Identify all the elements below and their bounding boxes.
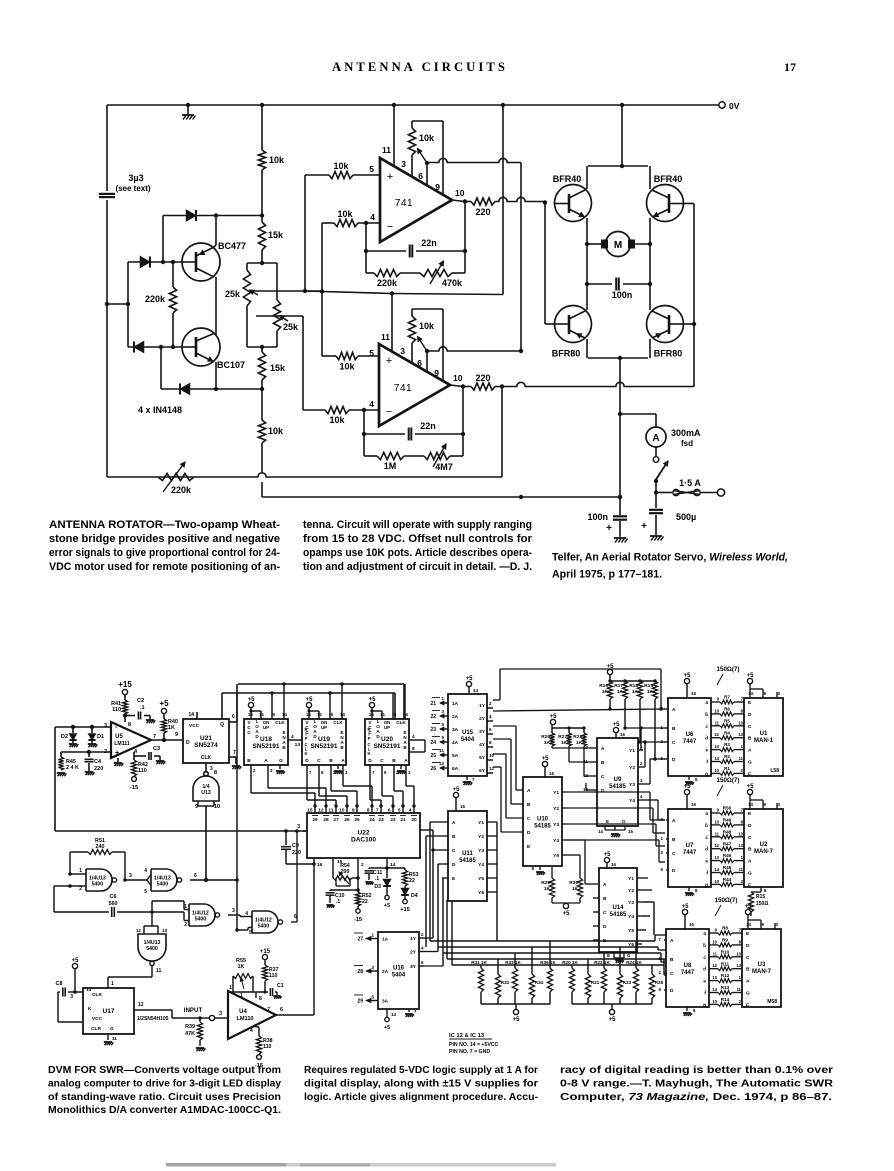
IC U9 xyxy=(597,738,638,826)
svg-text:16: 16 xyxy=(317,862,323,868)
wire U4 output xyxy=(276,1014,314,1016)
svg-text:error signals to give proporti: error signals to give proportional contr… xyxy=(49,547,280,559)
wire h1 to bridge bus xyxy=(427,158,521,162)
wire U21 Q to bus xyxy=(229,721,237,723)
IC U14 xyxy=(599,868,637,952)
svg-text:9: 9 xyxy=(441,735,444,740)
ground under U5 xyxy=(117,758,119,762)
wire left base tie xyxy=(544,203,546,325)
capacitor C9 220 xyxy=(284,829,288,833)
svg-text:B: B xyxy=(601,760,605,766)
svg-text:220k: 220k xyxy=(145,294,166,304)
gate G6 output to U17 xyxy=(151,965,153,977)
svg-text:(see text): (see text) xyxy=(115,184,150,193)
svg-text:150Ω(7): 150Ω(7) xyxy=(717,666,740,673)
svg-text:U22: U22 xyxy=(358,830,370,837)
svg-text:U13: U13 xyxy=(201,790,211,796)
svg-text:D1: D1 xyxy=(97,734,104,740)
gate G4 1/4U12 5400 xyxy=(189,904,215,926)
wire counter chain stubs xyxy=(288,739,302,741)
svg-text:R33 1K: R33 1K xyxy=(505,960,521,965)
svg-text:11: 11 xyxy=(259,712,264,717)
svg-text:14: 14 xyxy=(282,712,288,717)
svg-text:R4: R4 xyxy=(724,730,730,735)
svg-text:A: A xyxy=(746,979,750,985)
node xyxy=(260,345,264,349)
svg-text:21: 21 xyxy=(430,701,436,707)
IC U15 xyxy=(448,694,487,776)
wire left rail of diode bridge xyxy=(127,262,129,347)
svg-text:11: 11 xyxy=(737,987,742,992)
supply +5 R40 1K xyxy=(161,708,166,713)
svg-text:7: 7 xyxy=(233,750,236,756)
svg-text:R16: R16 xyxy=(599,683,608,689)
wire P2 wiper down to op2 inverting input xyxy=(256,315,303,317)
svg-text:U1: U1 xyxy=(760,731,768,737)
svg-text:4: 4 xyxy=(291,734,294,740)
diode D3 1N4148 xyxy=(134,341,144,352)
svg-text:11: 11 xyxy=(317,712,322,717)
svg-text:B: B xyxy=(392,758,396,764)
wire P1 wiper to input node xyxy=(252,290,322,292)
wires U9 outputs to U6 inputs xyxy=(493,709,665,711)
resistor 1M feedback op2 xyxy=(364,455,377,457)
wire bridge bottom feed xyxy=(619,358,621,515)
svg-text:16: 16 xyxy=(689,922,694,927)
IC U17 xyxy=(83,988,134,1034)
resistor 10k op1 -input xyxy=(322,222,334,224)
svg-text:R49: R49 xyxy=(723,818,732,823)
resistor 10k op2 +input xyxy=(322,355,336,357)
svg-text:1: 1 xyxy=(79,868,82,874)
wire BC477 base row xyxy=(128,261,183,263)
svg-text:R34: R34 xyxy=(535,980,544,985)
svg-text:+: + xyxy=(641,521,647,532)
svg-text:11: 11 xyxy=(382,145,391,155)
svg-text:U10: U10 xyxy=(537,817,549,823)
svg-text:C1: C1 xyxy=(277,983,284,989)
svg-text:24: 24 xyxy=(430,740,436,746)
svg-text:A: A xyxy=(264,758,268,764)
svg-text:29: 29 xyxy=(357,999,363,1005)
svg-text:13: 13 xyxy=(712,975,717,980)
svg-text:23: 23 xyxy=(430,727,436,733)
svg-text:6A: 6A xyxy=(452,766,459,772)
IC U20 xyxy=(365,719,409,765)
svg-text:D2: D2 xyxy=(61,734,68,740)
svg-text:BC477: BC477 xyxy=(218,241,246,251)
left long verticals xyxy=(432,830,434,938)
resistor R15 150 xyxy=(760,887,762,892)
wire bridge left rail xyxy=(586,244,588,284)
svg-text:12: 12 xyxy=(714,732,719,737)
svg-text:7447: 7447 xyxy=(683,739,697,745)
svg-text:R17: R17 xyxy=(614,683,623,689)
transistor Q5 BFR80 left xyxy=(555,306,592,343)
svg-text:ANTENNA ROTATOR—Two-opamp: ANTENNA ROTATOR—Two-opamp Wheat- xyxy=(49,519,281,531)
svg-text:C: C xyxy=(317,758,321,764)
wire bridge feed from bus xyxy=(620,103,624,107)
wire offset loop op2 xyxy=(411,309,413,316)
svg-text:560: 560 xyxy=(109,901,118,907)
svg-text:A: A xyxy=(652,433,659,444)
svg-text:d̅: d̅ xyxy=(704,735,708,742)
wire U21 pin14 xyxy=(196,712,198,719)
svg-text:B: B xyxy=(746,967,750,973)
svg-text:8: 8 xyxy=(412,746,415,752)
svg-text:LM111: LM111 xyxy=(114,741,130,747)
svg-text:CLK: CLK xyxy=(92,992,102,998)
svg-text:Y3: Y3 xyxy=(478,848,484,854)
svg-text:8: 8 xyxy=(489,740,492,745)
svg-text:13: 13 xyxy=(162,928,168,933)
svg-text:2: 2 xyxy=(489,701,492,706)
svg-text:D: D xyxy=(368,758,372,764)
svg-text:A: A xyxy=(672,818,676,824)
svg-text:16: 16 xyxy=(460,804,465,809)
svg-text:R45: R45 xyxy=(723,865,732,870)
svg-text:G: G xyxy=(748,871,752,877)
svg-text:Y2: Y2 xyxy=(478,834,484,840)
wire pin6 op2 xyxy=(426,351,428,372)
svg-text:R15: R15 xyxy=(756,894,765,900)
svg-text:25k: 25k xyxy=(283,322,299,332)
svg-text:Y6: Y6 xyxy=(478,890,484,896)
svg-text:C: C xyxy=(748,724,752,730)
wire xyxy=(162,216,164,263)
svg-text:3: 3 xyxy=(219,1011,222,1017)
svg-text:D: D xyxy=(748,823,752,829)
IC U19 xyxy=(302,719,346,765)
wire pot frame bottom xyxy=(247,346,277,348)
svg-text:1/2SN54H105: 1/2SN54H105 xyxy=(137,1016,169,1022)
wire U5 -in row xyxy=(61,751,111,753)
capacitor C6 560 xyxy=(54,885,70,887)
svg-text:B: B xyxy=(748,736,752,742)
wire pin11 op2 xyxy=(391,294,393,353)
svg-text:6: 6 xyxy=(232,714,235,720)
svg-text:BFR40: BFR40 xyxy=(654,174,683,184)
svg-text:U16: U16 xyxy=(393,966,405,972)
svg-text:1K: 1K xyxy=(632,689,639,695)
svg-text:K: K xyxy=(304,751,307,756)
svg-text:CLK: CLK xyxy=(333,720,343,725)
svg-text:-15: -15 xyxy=(130,785,139,791)
potentiometer 10k offset op2 xyxy=(408,316,415,343)
svg-text:9: 9 xyxy=(435,182,440,192)
svg-text:+5: +5 xyxy=(604,852,612,858)
svg-text:C: C xyxy=(380,758,384,764)
svg-text:13: 13 xyxy=(736,963,741,968)
svg-text:500µ: 500µ xyxy=(676,512,696,522)
svg-text:A: A xyxy=(341,758,345,764)
svg-text:R44: R44 xyxy=(723,877,732,882)
svg-text:G: G xyxy=(279,758,283,764)
svg-text:.1: .1 xyxy=(140,705,145,711)
svg-text:M58: M58 xyxy=(767,999,777,1005)
gate G3 output to bus xyxy=(190,879,237,881)
wire U17 clear loop xyxy=(57,992,59,1022)
svg-text:C: C xyxy=(527,816,531,822)
gate G1 1/4 U13 xyxy=(204,772,208,776)
svg-text:A: A xyxy=(670,938,674,944)
svg-text:5: 5 xyxy=(441,722,444,727)
display U3 xyxy=(742,929,781,1007)
svg-text:150Ω: 150Ω xyxy=(756,901,768,907)
op-amp U2 741 xyxy=(379,344,450,426)
svg-text:10: 10 xyxy=(712,999,717,1004)
svg-text:6: 6 xyxy=(194,873,197,879)
capacitor 100n bridge xyxy=(587,283,612,285)
resistor group R16-R19 1K xyxy=(607,669,612,674)
resistor 10k upper xyxy=(258,150,265,170)
svg-text:B: B xyxy=(670,957,674,963)
svg-text:14: 14 xyxy=(473,688,479,693)
svg-text:A: A xyxy=(603,882,607,888)
svg-text:C: C xyxy=(603,910,607,916)
wire bridge right rail xyxy=(649,244,651,284)
svg-text:2: 2 xyxy=(79,886,82,892)
resistor 220k vertical xyxy=(171,260,175,264)
svg-text:1: 1 xyxy=(184,904,187,910)
svg-text:Telfer, An Aerial Rotator Serv: Telfer, An Aerial Rotator Servo, Wireles… xyxy=(552,552,788,564)
svg-text:U17: U17 xyxy=(103,1008,115,1015)
svg-text:stone bridge provides positive: stone bridge provides positive and negat… xyxy=(49,533,280,545)
diode D2 1N4148 xyxy=(140,256,150,267)
svg-text:Y2: Y2 xyxy=(553,806,559,812)
svg-text:+15: +15 xyxy=(118,680,132,689)
wires R26-28 down to U9 inputs xyxy=(551,746,553,748)
svg-text:22: 22 xyxy=(390,817,396,823)
svg-text:A: A xyxy=(452,820,456,826)
IC U22 DAC100 xyxy=(307,813,420,858)
svg-text:0V: 0V xyxy=(729,101,740,111)
svg-text:10: 10 xyxy=(714,819,719,824)
svg-text:CLK: CLK xyxy=(201,755,212,761)
svg-text:7447: 7447 xyxy=(683,850,697,856)
diode D4 1N4148 xyxy=(180,383,190,394)
gate G2 1/4U13 5400 xyxy=(86,869,112,891)
svg-text:16: 16 xyxy=(691,802,696,807)
resistor 10k lower xyxy=(261,389,263,420)
svg-text:16: 16 xyxy=(611,862,616,867)
wire diode row y389 xyxy=(161,388,262,390)
svg-text:SN52191: SN52191 xyxy=(252,743,279,750)
svg-text:300mA: 300mA xyxy=(671,428,701,438)
svg-text:R9: R9 xyxy=(722,938,728,943)
svg-text:+: + xyxy=(115,750,119,757)
svg-text:11: 11 xyxy=(715,831,720,836)
ground under 100n xyxy=(614,537,626,539)
svg-text:1K: 1K xyxy=(238,964,245,970)
svg-text:C3: C3 xyxy=(153,746,160,752)
svg-text:5400: 5400 xyxy=(258,924,270,930)
svg-text:4: 4 xyxy=(412,734,415,740)
svg-text:3: 3 xyxy=(401,159,406,169)
svg-text:16: 16 xyxy=(549,771,554,776)
svg-text:C: C xyxy=(672,740,676,746)
resistor 10k op1 +input xyxy=(305,174,329,176)
svg-text:R10: R10 xyxy=(721,949,730,954)
svg-text:BFR80: BFR80 xyxy=(654,349,683,359)
svg-text:54185: 54185 xyxy=(534,824,551,830)
capacitor 22n op1 xyxy=(366,250,406,252)
potentiometer 4M7 op2 xyxy=(404,455,424,457)
node 0V terminal xyxy=(719,102,725,108)
svg-text:Y5: Y5 xyxy=(478,876,484,882)
svg-text:14: 14 xyxy=(748,802,753,807)
svg-text:8: 8 xyxy=(214,770,217,776)
svg-text:R36 1K: R36 1K xyxy=(540,960,556,965)
svg-text:Y3: Y3 xyxy=(628,900,634,906)
svg-text:April 1975, p 177–181.: April 1975, p 177–181. xyxy=(552,569,662,581)
svg-text:15: 15 xyxy=(628,829,633,834)
wire U21 gnd xyxy=(229,756,236,758)
svg-text:g̅: g̅ xyxy=(704,771,708,777)
gate G4 to G5 xyxy=(228,914,240,916)
svg-text:14: 14 xyxy=(746,922,751,927)
svg-text:4: 4 xyxy=(245,911,248,917)
svg-text:Y5: Y5 xyxy=(553,853,559,859)
svg-text:1K: 1K xyxy=(561,740,568,746)
svg-text:3: 3 xyxy=(104,723,107,729)
svg-text:+5: +5 xyxy=(542,756,550,762)
svg-text:6: 6 xyxy=(421,960,424,965)
svg-text:+5: +5 xyxy=(453,787,461,793)
capacitor C2 .1 xyxy=(125,715,135,717)
svg-text:10: 10 xyxy=(738,831,743,836)
wire top bus to U6 region xyxy=(499,669,501,700)
wire op1 output down xyxy=(464,202,466,274)
svg-text:.1: .1 xyxy=(375,876,379,882)
svg-text:29: 29 xyxy=(312,817,318,823)
wire xyxy=(261,170,263,222)
resistor R54 200 trimmer xyxy=(332,859,334,878)
svg-text:3: 3 xyxy=(371,965,374,970)
node stub to left bus xyxy=(105,302,109,306)
svg-text:5404: 5404 xyxy=(461,737,475,743)
svg-text:A: A xyxy=(748,859,752,865)
IC U7 xyxy=(668,809,711,887)
capacitor 500u xyxy=(655,493,657,509)
svg-text:CLR: CLR xyxy=(91,1026,101,1032)
svg-text:D: D xyxy=(452,862,456,868)
svg-text:BC107: BC107 xyxy=(217,360,245,370)
svg-text:BFR40: BFR40 xyxy=(553,174,582,184)
svg-text:15k: 15k xyxy=(268,230,284,240)
svg-text:4: 4 xyxy=(144,868,147,874)
svg-text:10k: 10k xyxy=(337,209,353,219)
svg-text:741: 741 xyxy=(394,383,412,394)
svg-text:1K: 1K xyxy=(168,725,175,731)
svg-text:P: P xyxy=(368,736,371,741)
svg-text:CLK: CLK xyxy=(396,720,406,725)
svg-text:+5: +5 xyxy=(369,697,377,703)
svg-text:11: 11 xyxy=(112,1036,117,1041)
resistor 220k feedback op1 xyxy=(366,272,374,274)
svg-text:R21: R21 xyxy=(591,980,600,985)
gate G6 1/4U13 5400 xyxy=(138,934,166,961)
svg-text:Requires regulated 5-VDC logic: Requires regulated 5-VDC logic supply at… xyxy=(304,1065,538,1076)
svg-text:D: D xyxy=(670,988,674,994)
potentiometer 470k op1 xyxy=(400,272,420,274)
svg-text:Y5: Y5 xyxy=(628,928,634,934)
transistor Q3 BFR40 left xyxy=(555,185,592,222)
page bottom edge artifact xyxy=(166,1163,556,1167)
wire bottom return h497 xyxy=(262,496,620,498)
svg-text:150Ω(7): 150Ω(7) xyxy=(715,897,738,904)
supply +5 U15 xyxy=(466,681,471,686)
svg-text:2Y: 2Y xyxy=(410,950,417,956)
svg-text:47K: 47K xyxy=(185,1031,195,1037)
IC U6 xyxy=(668,698,711,776)
node xyxy=(161,260,165,264)
wire U5 +in row xyxy=(55,726,111,728)
svg-text:Y3: Y3 xyxy=(629,782,635,788)
svg-text:4: 4 xyxy=(421,946,424,951)
svg-text:Y4: Y4 xyxy=(629,798,635,804)
svg-text:110: 110 xyxy=(263,1044,271,1050)
svg-text:U7: U7 xyxy=(686,843,694,849)
potentiometer P1 25k xyxy=(246,263,248,270)
ground under 500u xyxy=(650,535,662,537)
svg-text:BFR80: BFR80 xyxy=(552,349,581,359)
wires U14 outputs to U8 via elbows xyxy=(642,901,654,903)
resistor 15k upper xyxy=(258,222,265,250)
svg-text:0-8 V range.—T. Mayhugh, The A: 0-8 V range.—T. Mayhugh, The Automatic S… xyxy=(560,1078,834,1089)
svg-text:14: 14 xyxy=(748,691,753,696)
svg-text:+: + xyxy=(386,355,392,367)
svg-text:C8: C8 xyxy=(56,981,63,987)
svg-text:B: B xyxy=(247,758,251,764)
svg-text:14: 14 xyxy=(598,829,603,834)
svg-text:1: 1 xyxy=(240,993,243,999)
wire CLK bus upper xyxy=(238,683,404,685)
svg-text:D: D xyxy=(748,712,752,718)
svg-text:10: 10 xyxy=(712,939,717,944)
svg-text:K: K xyxy=(88,1006,92,1012)
svg-text:11: 11 xyxy=(156,968,162,974)
svg-text:C: C xyxy=(746,955,750,961)
capacitor C4 220 xyxy=(88,752,90,757)
capacitor C1 xyxy=(265,991,268,993)
gate G2 output to G3 xyxy=(125,879,147,881)
wire pin6 op1 xyxy=(426,163,428,185)
svg-text:VCC: VCC xyxy=(189,723,200,729)
svg-text:C9: C9 xyxy=(292,843,299,849)
svg-text:1Y: 1Y xyxy=(410,936,417,942)
svg-text:U14: U14 xyxy=(612,905,624,911)
svg-text:13: 13 xyxy=(714,744,719,749)
svg-text:25: 25 xyxy=(354,817,360,823)
svg-text:Y2: Y2 xyxy=(629,765,635,771)
wire U5 output xyxy=(151,739,183,741)
svg-text:C: C xyxy=(670,971,674,977)
svg-text:R25: R25 xyxy=(655,980,664,985)
svg-text:7: 7 xyxy=(472,777,475,782)
svg-text:LM110: LM110 xyxy=(236,1016,253,1022)
svg-text:Y4: Y4 xyxy=(553,838,559,844)
svg-text:U21: U21 xyxy=(200,735,212,742)
svg-text:E: E xyxy=(606,819,609,824)
svg-text:U4: U4 xyxy=(239,1009,247,1015)
svg-text:B: B xyxy=(672,726,676,732)
svg-text:5400: 5400 xyxy=(157,882,169,888)
svg-text:16: 16 xyxy=(306,712,312,717)
svg-text:R39: R39 xyxy=(185,1024,195,1030)
svg-text:14: 14 xyxy=(86,987,92,992)
svg-text:21: 21 xyxy=(400,817,406,823)
